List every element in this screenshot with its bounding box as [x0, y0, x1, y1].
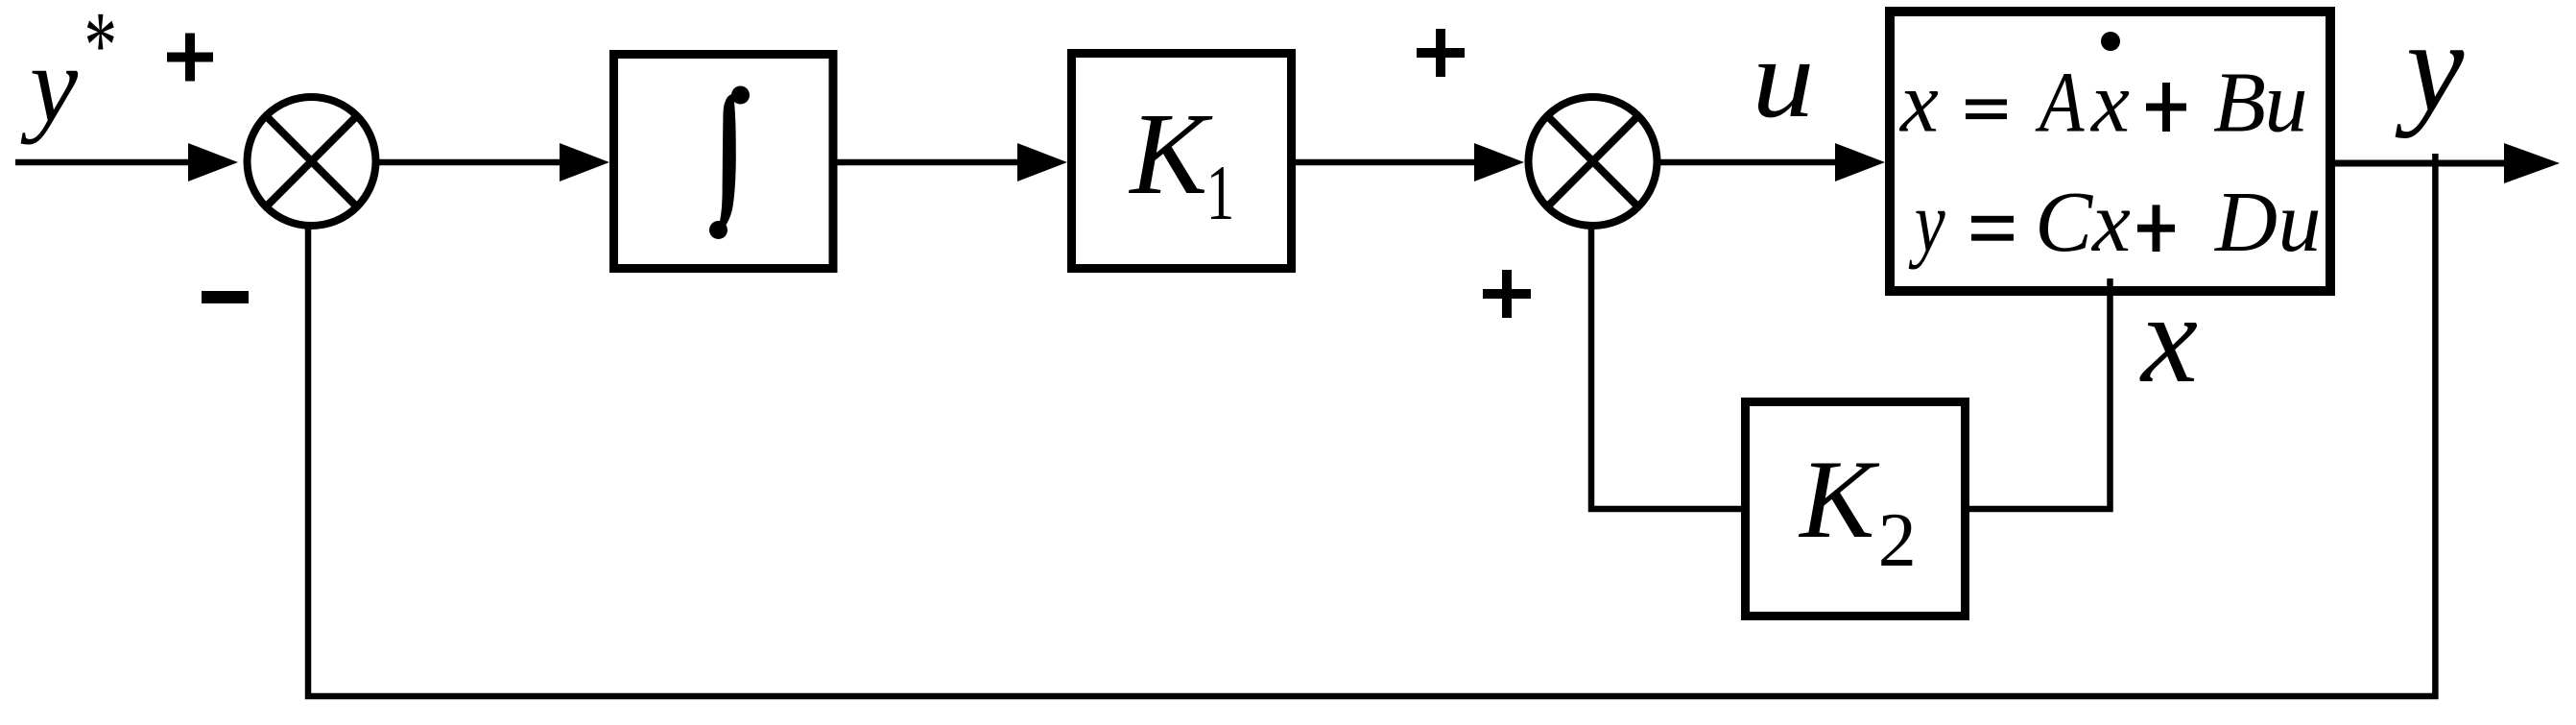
svg-text:y: y: [20, 25, 79, 145]
wire S2 to plant, signal u: [1660, 159, 1838, 166]
integral sign: [719, 93, 736, 227]
summing junction S2: [1529, 97, 1658, 226]
svg-text:C: C: [2035, 175, 2093, 270]
wire K1 to summing junction S2: [1296, 159, 1477, 166]
svg-text:*: *: [84, 0, 117, 98]
block K1: [1072, 54, 1292, 269]
svg-text:2: 2: [1878, 498, 1917, 583]
svg-text:x: x: [2089, 56, 2130, 151]
output wire, signal y: [2335, 160, 2507, 167]
summing junction S1: [248, 97, 376, 226]
arrowhead into S2: [1474, 143, 1524, 181]
derivative dot: [2101, 32, 2120, 51]
svg-text:1: 1: [1206, 150, 1235, 237]
output arrowhead: [2504, 143, 2560, 183]
svg-text:K: K: [1128, 90, 1213, 219]
plus sign at S2 top: [1417, 29, 1465, 77]
svg-text:u: u: [2278, 175, 2322, 270]
svg-text:y: y: [1909, 173, 1946, 269]
plant block with state equations: [1890, 12, 2330, 291]
svg-text:x: x: [2139, 267, 2198, 409]
block K2: [1746, 402, 1966, 616]
svg-text:K: K: [1798, 438, 1880, 562]
svg-text:x: x: [2090, 175, 2131, 270]
arrowhead into S1: [188, 143, 238, 181]
svg-text:A: A: [2035, 56, 2085, 151]
plus sign at S2 bottom: [1483, 270, 1531, 318]
plus sign at S1: [167, 34, 213, 82]
svg-text:D: D: [2213, 175, 2278, 270]
state tap wire x: from plant bottom down then left into K2: [1969, 278, 2111, 509]
minus sign at S1: [202, 291, 249, 303]
wire input into summing junction S1: [15, 159, 197, 166]
svg-text:x: x: [1898, 56, 1939, 151]
svg-text:u: u: [2265, 56, 2308, 151]
wire K2 to S2: left then up into S2 bottom: [1591, 227, 1741, 509]
integrator block: [614, 55, 834, 269]
arrowhead into integrator: [560, 143, 609, 181]
wire integrator to K1: [837, 159, 1020, 166]
feedback wire of y: branch down, left along bottom, up into S1: [308, 154, 2435, 696]
wire S1 to integrator: [379, 159, 562, 166]
svg-text:u: u: [1753, 14, 1815, 140]
arrowhead into plant: [1835, 143, 1885, 181]
arrowhead into K1: [1017, 143, 1067, 181]
label y* (reference input): [20, 0, 117, 145]
svg-text:B: B: [2213, 56, 2266, 151]
